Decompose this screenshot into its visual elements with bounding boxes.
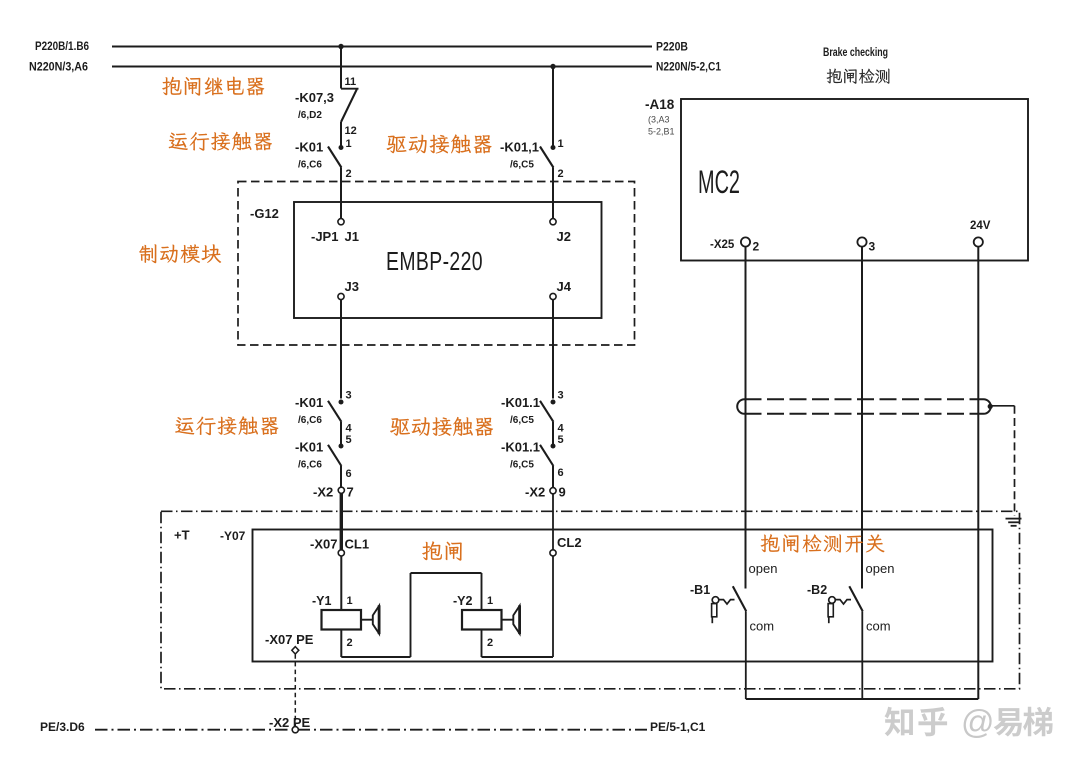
terminal X07:CL1	[338, 550, 344, 556]
svg-text:-X2: -X2	[313, 485, 333, 500]
bridge right leg to Y2:1	[481, 573, 483, 610]
svg-text:12: 12	[345, 125, 357, 137]
terminal J3	[338, 293, 344, 299]
svg-text:-Y1: -Y1	[312, 594, 332, 608]
svg-text:-G12: -G12	[250, 206, 279, 221]
svg-text:-K01,1: -K01,1	[500, 140, 539, 155]
terminal X07:PE (diamond)	[292, 647, 299, 654]
svg-text:J2: J2	[557, 229, 571, 244]
svg-text:/6,C5: /6,C5	[510, 460, 534, 471]
wire J3 to K01:3	[340, 300, 342, 399]
svg-text:1: 1	[347, 595, 353, 607]
shield drain (dashed) down to ground	[1014, 406, 1016, 516]
PE wire (dashed) X07PE to X2PE	[294, 654, 296, 726]
terminal J4	[550, 293, 556, 299]
bridge left leg	[410, 573, 412, 657]
wire shield tap to corner	[990, 405, 1014, 407]
ground bar 2	[1008, 521, 1019, 523]
cable shield marker top (dashed)	[745, 398, 984, 400]
contact K01,1 blade	[540, 147, 553, 168]
contact K01 blade	[328, 147, 341, 168]
label 抱闸检测 (brake checking)	[827, 69, 890, 84]
wire K01,1 pin2 to J2	[552, 168, 554, 219]
B2 plunger stem	[828, 617, 830, 623]
wire Y2:2 down	[481, 630, 483, 658]
svg-text:11: 11	[345, 76, 357, 88]
wire 24V down	[977, 247, 979, 699]
watermark 知乎	[885, 707, 948, 737]
Y1 horn mouth bar	[378, 605, 381, 634]
svg-text:-Y2: -Y2	[453, 594, 473, 608]
EMBP-220 brake power module box	[294, 202, 602, 318]
car-top enclosure +T (dash-dot)	[161, 511, 1020, 689]
svg-text:@: @	[961, 703, 995, 740]
wire K01.1:6 to X2:9	[552, 466, 554, 488]
contact K01 top terminal	[339, 145, 344, 150]
terminal 24V	[974, 237, 983, 246]
B1 plunger stem	[711, 617, 713, 623]
Y1 brake horn	[373, 606, 379, 634]
heavy wire X2:7 to X07:CL1	[340, 493, 343, 549]
svg-text:3: 3	[869, 240, 876, 254]
svg-text:P220B: P220B	[656, 42, 688, 54]
terminal -X25:3	[857, 237, 866, 246]
wire N220N bus	[112, 65, 652, 67]
label 抱闸检测开关 (brake switch)	[761, 534, 885, 552]
brake module enclosure -G12 (dashed)	[238, 182, 635, 346]
svg-text:com: com	[750, 619, 775, 634]
svg-text:-K01: -K01	[295, 140, 323, 155]
svg-text:+T: +T	[174, 528, 190, 543]
label 运行接触器 lower	[175, 416, 278, 435]
wire K01:6 to X2:7	[340, 466, 342, 487]
ground bar 1	[1006, 518, 1022, 520]
svg-text:4: 4	[346, 423, 353, 435]
junction on N220N at K01.1 branch	[550, 64, 555, 69]
svg-text:open: open	[749, 561, 778, 576]
terminal X07:CL2	[550, 550, 556, 556]
svg-text:CL1: CL1	[345, 537, 370, 552]
B1 roller	[712, 597, 719, 604]
wire K01 pin2 to J1	[340, 168, 342, 219]
wire CL1 to Y1:1	[340, 556, 342, 610]
label 驱动接触器 lower	[390, 417, 493, 436]
svg-text:-JP1: -JP1	[311, 229, 338, 244]
svg-text:2: 2	[487, 637, 493, 649]
B1 actuator link	[719, 600, 735, 604]
svg-text:2: 2	[347, 637, 353, 649]
svg-text:(3,A3: (3,A3	[648, 115, 670, 125]
svg-text:CL2: CL2	[557, 535, 582, 550]
terminal J2	[550, 219, 556, 225]
contact K01 5-6 blade	[328, 445, 341, 466]
svg-text:EMBP-220: EMBP-220	[386, 248, 483, 276]
contact K01 3-4 blade	[328, 401, 341, 422]
contact K01.1 5-6 top terminal	[551, 444, 556, 449]
svg-text:-Y07: -Y07	[220, 529, 246, 543]
terminal X2:PE	[292, 727, 298, 733]
svg-text:PE/5-1,C1: PE/5-1,C1	[650, 720, 706, 734]
terminal -X2:7	[338, 487, 344, 493]
contact K07.3 fixed tick	[341, 88, 359, 90]
svg-text:-B1: -B1	[690, 583, 710, 597]
brake unit box -Y07	[253, 530, 993, 662]
wire P220B to K07.3 pin11	[340, 47, 342, 89]
wire B2 com down	[861, 611, 863, 699]
contact K01.1 3-4 blade	[540, 401, 553, 422]
svg-text:/6,C5: /6,C5	[510, 160, 534, 171]
PE bus (dash-dot)	[95, 729, 647, 731]
label 制动模块 (brake module)	[139, 244, 221, 263]
B2 roller	[829, 597, 836, 604]
svg-text:Brake checking: Brake checking	[823, 47, 888, 59]
svg-text:5: 5	[346, 434, 352, 446]
svg-text:1: 1	[558, 138, 564, 150]
svg-text:J4: J4	[557, 279, 572, 294]
svg-text:-X2 PE: -X2 PE	[269, 715, 311, 730]
svg-text:2: 2	[346, 168, 352, 180]
contact K01 3-4 top terminal	[339, 400, 344, 405]
brake coil -Y1	[322, 610, 362, 630]
svg-text:24V: 24V	[970, 220, 991, 232]
junction on P220B at K07 branch	[338, 44, 343, 49]
svg-text:-X07 PE: -X07 PE	[265, 632, 314, 647]
svg-text:-X2: -X2	[525, 485, 545, 500]
label 抱闸继电器 (brake relay)	[162, 77, 264, 96]
wire K01.1:4 to K01.1:5	[552, 422, 554, 446]
contact K01.1 5-6 blade	[540, 445, 553, 466]
svg-text:J3: J3	[345, 279, 359, 294]
cable shield tap dot	[988, 404, 993, 409]
wire N220N to K01.1 pin1	[552, 67, 554, 148]
svg-text:5-2,B1: 5-2,B1	[648, 127, 675, 137]
svg-text:PE/3.D6: PE/3.D6	[40, 720, 85, 734]
wire X2:9 to CL2	[552, 494, 554, 550]
Y2 horn stem	[502, 619, 514, 621]
wire bottom tie B1-B2-24V	[746, 698, 979, 700]
svg-text:/6,C5: /6,C5	[510, 415, 534, 426]
contact K07.3 blade	[341, 89, 357, 122]
wire X25:2 to B1 open	[745, 247, 747, 589]
svg-text:-X07: -X07	[310, 537, 337, 552]
wire Y2 bottom run to CL2	[482, 656, 554, 658]
svg-text:N220N/3,A6: N220N/3,A6	[29, 62, 88, 74]
svg-text:open: open	[866, 561, 895, 576]
svg-text:-X25: -X25	[710, 239, 735, 251]
Y2 brake horn	[513, 606, 519, 634]
B2 actuator link	[835, 600, 851, 604]
wire J4 to K01.1:3	[552, 300, 554, 399]
svg-text:-B2: -B2	[807, 583, 827, 597]
B2 plunger	[828, 604, 833, 617]
wire B1 com down	[745, 611, 747, 699]
svg-text:-A18: -A18	[645, 97, 675, 112]
cable shield marker bottom (dashed)	[745, 413, 984, 415]
wire K01:4 to K01:5	[340, 422, 342, 446]
svg-text:6: 6	[346, 468, 352, 480]
svg-text:N220N/5-2,C1: N220N/5-2,C1	[656, 62, 722, 74]
Y2 horn mouth bar	[518, 605, 521, 634]
wire X25:3 to B2 open	[861, 247, 863, 589]
cable shield marker left cap	[737, 399, 744, 414]
terminal J1	[338, 219, 344, 225]
svg-text:-K01.1: -K01.1	[501, 395, 540, 410]
svg-text:/6,C6: /6,C6	[298, 415, 322, 426]
svg-text:4: 4	[558, 423, 565, 435]
label 运行接触器 (running contactor)	[169, 132, 272, 151]
cable shield marker right cap	[984, 399, 991, 414]
svg-text:2: 2	[753, 240, 760, 254]
bridge top	[411, 572, 482, 574]
svg-text:J1: J1	[345, 229, 359, 244]
wire Y1:2 down	[340, 630, 342, 658]
svg-text:9: 9	[559, 485, 566, 500]
svg-text:com: com	[866, 619, 891, 634]
contact K01 5-6 top terminal	[339, 444, 344, 449]
svg-text:P220B/1.B6: P220B/1.B6	[35, 41, 89, 53]
svg-text:1: 1	[487, 595, 493, 607]
svg-text:-K01.1: -K01.1	[501, 440, 540, 455]
terminal -X2:9	[550, 488, 556, 494]
contact K01.1 3-4 top terminal	[551, 400, 556, 405]
svg-text:-K01: -K01	[295, 395, 323, 410]
svg-text:7: 7	[347, 485, 354, 500]
B1 plunger	[712, 604, 717, 617]
wire Y1 bottom run	[341, 656, 410, 658]
svg-text:MC2: MC2	[698, 164, 740, 200]
svg-text:3: 3	[558, 390, 564, 402]
svg-text:-K07,3: -K07,3	[295, 90, 334, 105]
svg-text:/6,D2: /6,D2	[298, 110, 322, 121]
wire CL2 down	[552, 556, 554, 657]
svg-text:-K01: -K01	[295, 440, 323, 455]
ground bar 3	[1011, 525, 1017, 527]
svg-text:/6,C6: /6,C6	[298, 460, 322, 471]
label 驱动接触器 (drive contactor) upper	[387, 134, 492, 153]
svg-text:6: 6	[558, 467, 564, 479]
Y1 horn stem	[361, 619, 373, 621]
controller MC2 box -A18	[681, 99, 1028, 261]
svg-text:/6,C6: /6,C6	[298, 160, 322, 171]
svg-text:1: 1	[346, 138, 352, 150]
watermark 易梯	[994, 707, 1053, 737]
svg-text:2: 2	[558, 168, 564, 180]
contact K01,1 top terminal	[551, 145, 556, 150]
brake coil -Y2	[462, 610, 502, 630]
label 抱闸 (brake)	[422, 541, 462, 560]
svg-text:5: 5	[558, 434, 564, 446]
contact B1 blade	[733, 586, 746, 611]
wire P220B bus	[112, 45, 652, 47]
svg-text:3: 3	[346, 390, 352, 402]
wire K07.3 pin12 to K01 pin1	[340, 122, 342, 147]
contact B2 blade	[849, 586, 862, 611]
terminal -X25:2	[741, 237, 750, 246]
